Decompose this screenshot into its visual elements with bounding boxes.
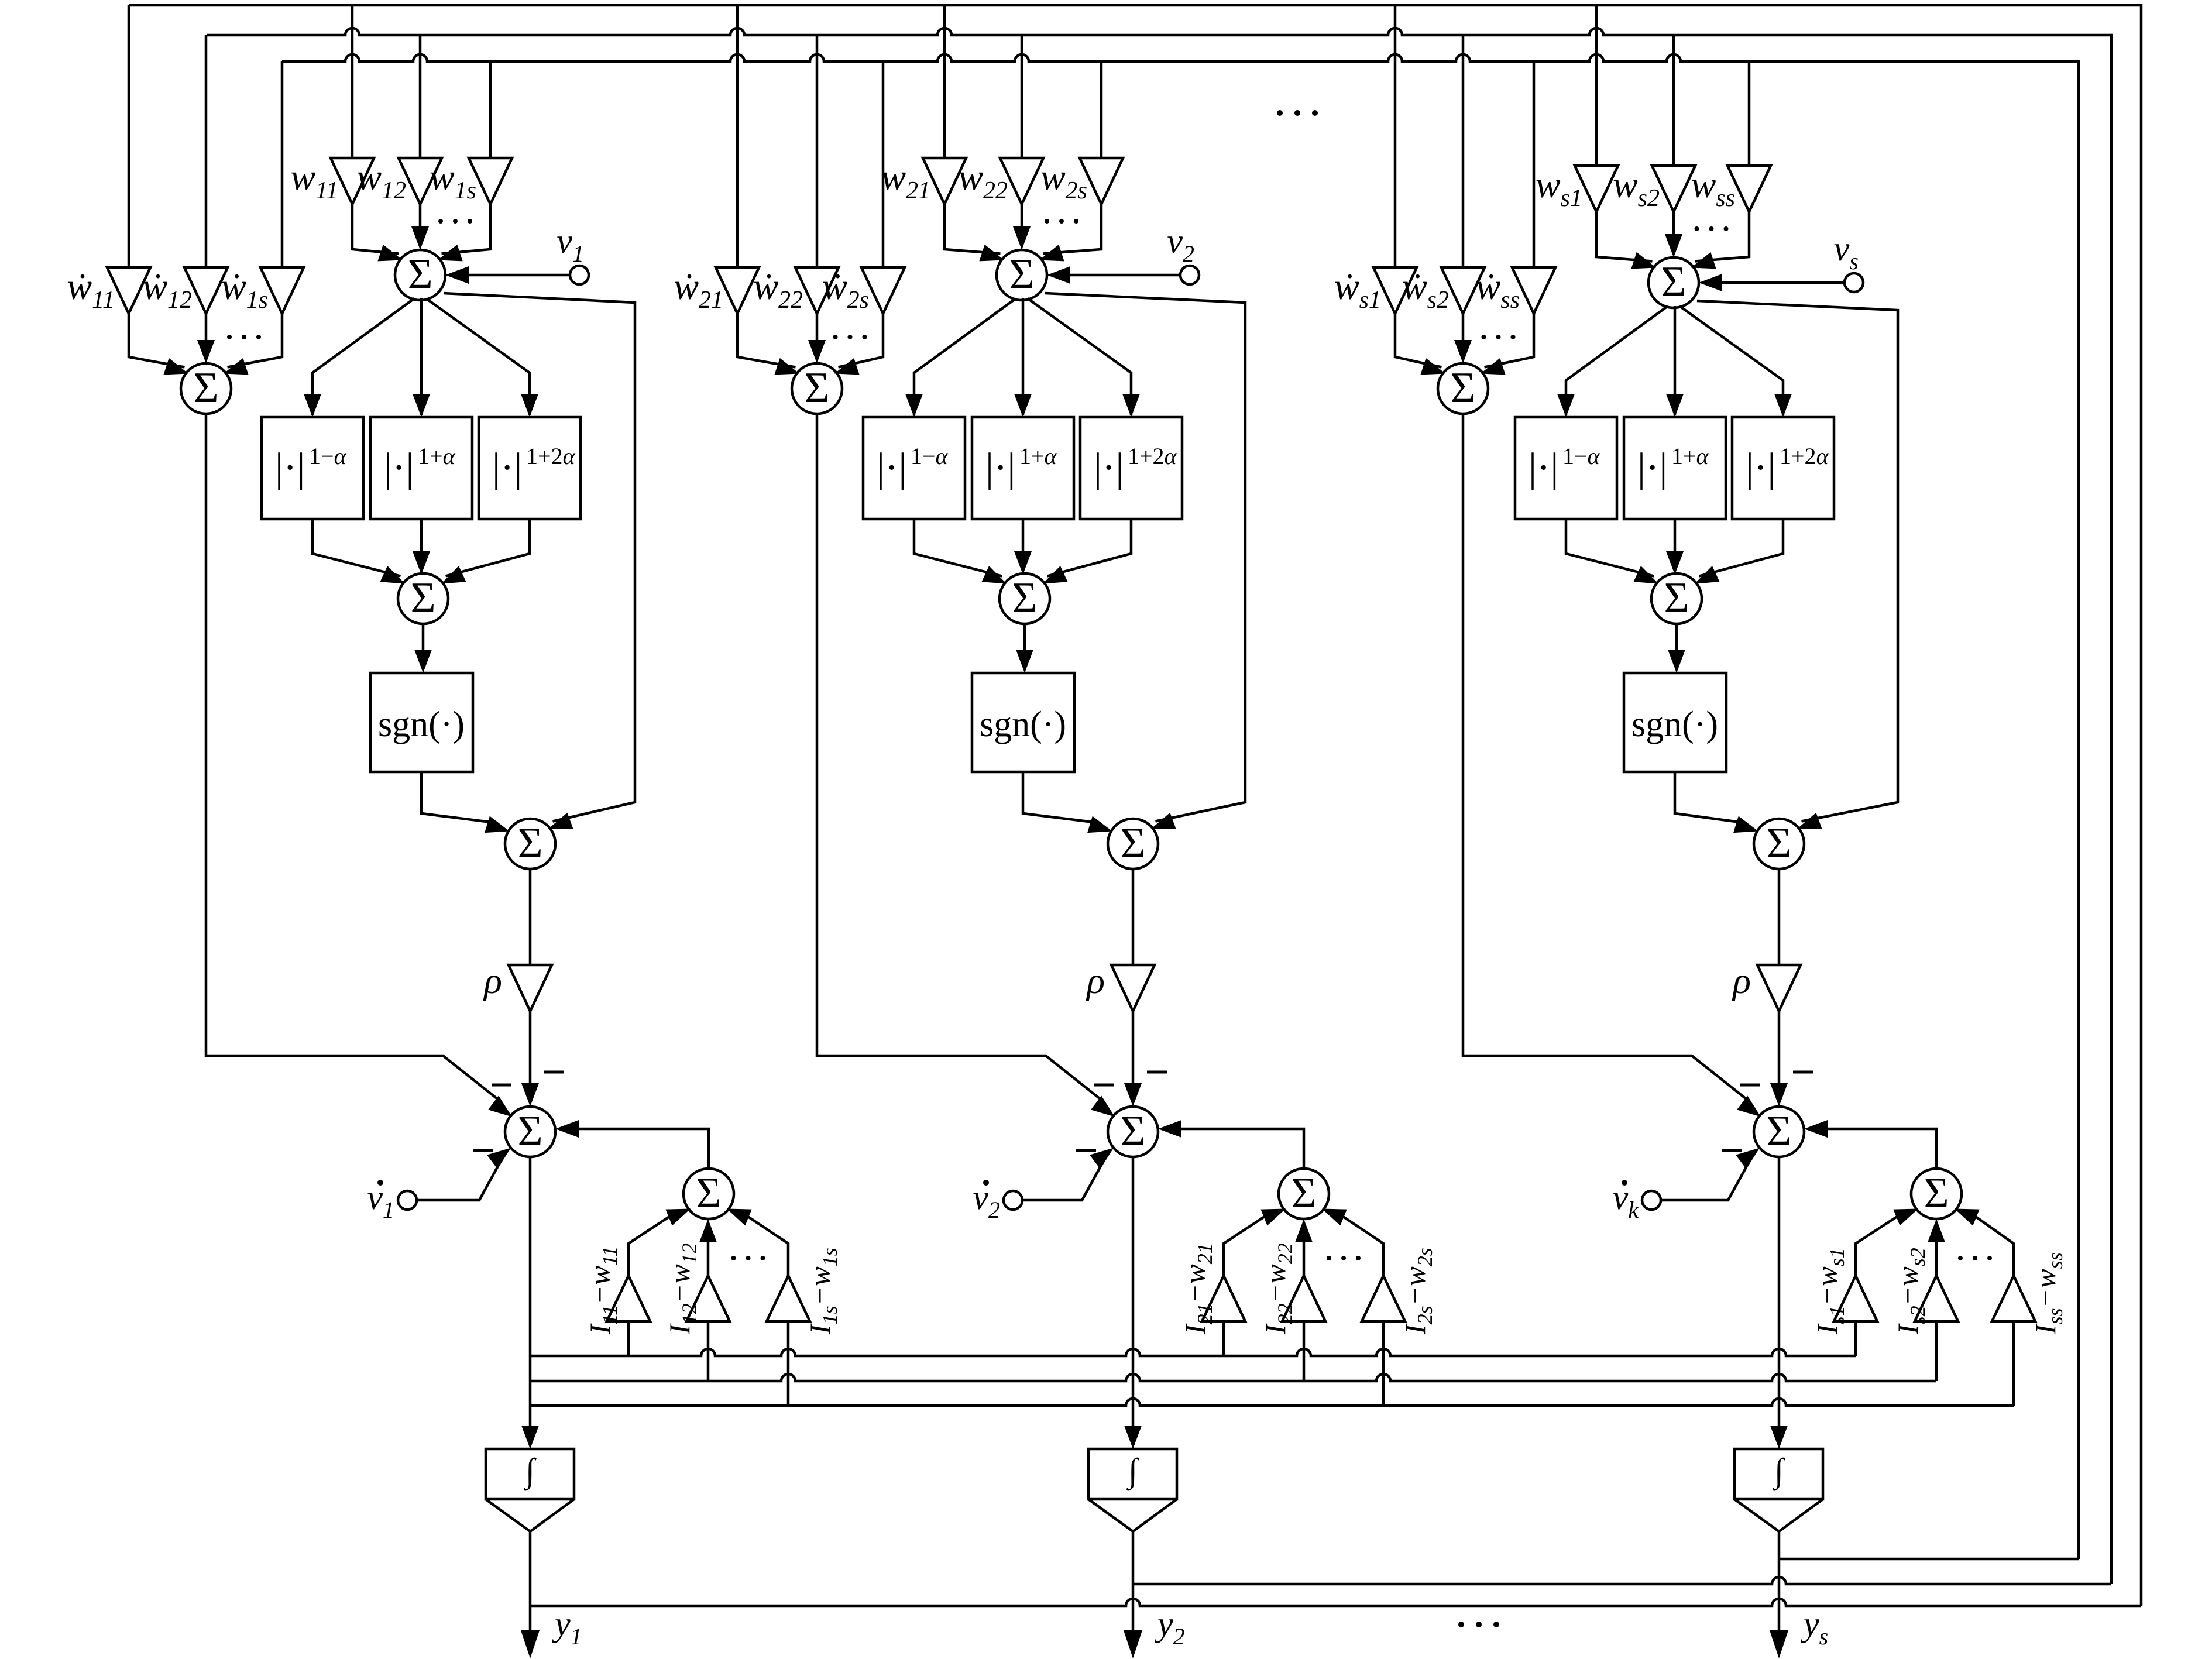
abs-power box |.|^1+2a column 1 [479, 417, 581, 519]
gain triangle Iss-wss [1992, 1276, 2035, 1321]
wire mid sum to sgn box [1023, 624, 1026, 653]
wire main sum to abs box 1 [914, 298, 1016, 415]
summing junction (lower) column 3 [1754, 1107, 1804, 1157]
wire feed from top bus 2 to gain ws2 [1672, 35, 1675, 166]
wire wdot1s to wdot sum [228, 314, 283, 367]
svg-text:ρ: ρ [1732, 960, 1751, 1001]
sgn box column 2 [972, 673, 1074, 772]
svg-text:∫: ∫ [1126, 1451, 1139, 1491]
summing junction (post-sgn) column 1 [505, 819, 555, 869]
arrowhead into wdot sum (right) [224, 358, 249, 375]
minus sign (rho input) [1793, 1071, 1813, 1074]
wire I-gain 21 to I-sum [1224, 1216, 1266, 1276]
wire bypass from main sum to post-sgn sum [1045, 293, 1245, 822]
arrowhead into I-sum (left) [665, 1209, 691, 1226]
wire I-gain 12 to I-sum [707, 1238, 710, 1276]
arrowhead into lower sum from wdot sum [1737, 1095, 1761, 1117]
arrowhead into I-sum (middle) [1928, 1219, 1945, 1242]
svg-text:Σ: Σ [1766, 819, 1791, 867]
terminal circle v1 [570, 266, 589, 284]
label I22-w22 [1259, 1243, 1297, 1335]
wire abs box 1 to mid sum [312, 519, 401, 576]
svg-text:Σ: Σ [517, 1107, 542, 1155]
abs-power box |.|^1+a column 1 [370, 417, 472, 519]
gain triangle w12 [399, 158, 442, 204]
arrowhead output ys [1770, 1630, 1788, 1658]
wire wss to sum [1695, 212, 1750, 262]
wire I-sum to lower sum [573, 1129, 709, 1169]
svg-text:Σ: Σ [1012, 574, 1037, 622]
wire mid sum to sgn box [422, 624, 425, 653]
svg-text:Σ: Σ [193, 364, 218, 412]
arrowhead into lower sum from rho [1124, 1083, 1142, 1107]
arrowhead into sgn box [414, 650, 432, 673]
wire bottom bus 2 (y2 to I-gains) [530, 1374, 1936, 1381]
wire sgn box to post-sgn sum [421, 772, 498, 823]
arrowhead into main sum from w2s [1039, 245, 1064, 262]
arrowhead into main sum from w1s [438, 245, 463, 262]
svg-text:|·|: |·| [1529, 445, 1558, 490]
wire feed from top bus 3 to gain wdotss [1533, 61, 1536, 267]
wire lower sum to integrator [529, 1157, 532, 1429]
svg-text:|·|: |·| [1746, 445, 1775, 490]
wire ys feedback bottom line [1779, 1558, 2079, 1561]
wire vdotk to lower sum [1661, 1162, 1750, 1201]
arrowhead into main sum from ws1 [1631, 252, 1656, 269]
summing junction (after abs boxes) column 2 [999, 573, 1050, 624]
wire w11 to sum [352, 204, 399, 254]
arrowhead into lower sum from rho [521, 1083, 539, 1107]
gain triangle I2s-w2s [1362, 1276, 1405, 1321]
svg-text:1+α: 1+α [1671, 443, 1709, 469]
wire integrator to output y [1132, 1531, 1135, 1633]
arrowhead output y1 [521, 1630, 540, 1658]
svg-text:1+α: 1+α [418, 443, 456, 469]
arrowhead into lower sum from vdot [1736, 1148, 1760, 1169]
wire I-gain 1s to I-sum [747, 1216, 788, 1276]
wire integrator to output y [529, 1531, 532, 1633]
arrowhead into I-sum (right) [1322, 1209, 1347, 1226]
svg-text:1+2α: 1+2α [1780, 443, 1829, 469]
wire wdot2s to wdot sum [839, 314, 884, 367]
summing junction (after abs boxes) column 1 [398, 573, 448, 624]
sgn box column 1 [370, 673, 473, 772]
wire I-gain s1 to I-sum [1856, 1216, 1898, 1276]
arrowhead output y2 [1124, 1630, 1142, 1658]
wire I-sum to lower sum [1176, 1129, 1304, 1169]
arrowhead into I-sum (left) [1893, 1209, 1918, 1226]
svg-text:Σ: Σ [517, 819, 542, 867]
wire feed from top bus 2 to gain wdot22 [816, 35, 819, 267]
abs-power box |.|^1+2a column 3 [1732, 417, 1834, 519]
arrowhead into wdot sum (left) [774, 358, 799, 375]
wire w1s to sum [442, 204, 491, 254]
gain triangle I22-w22 [1282, 1276, 1325, 1321]
label Is1-ws1 [1811, 1248, 1849, 1335]
summing junction (lower) column 1 [505, 1107, 555, 1157]
svg-text:1−α: 1−α [1562, 443, 1600, 469]
wire stem I12 to bottom bus 2 [707, 1321, 710, 1381]
wire main sum to abs box 3 [1028, 298, 1131, 415]
wire main sum to abs box 2 [1022, 298, 1025, 415]
gain triangle I1s-w1s [767, 1276, 810, 1321]
wire feed from top bus 2 to gain w22 [1021, 35, 1023, 158]
wire wdots2 to wdot sum [1462, 314, 1465, 344]
arrowhead into mid sum from box 3 [441, 566, 466, 584]
minus sign (vdot input) [1722, 1149, 1742, 1152]
wire feed from top bus 1 to gain ws1 [1595, 5, 1598, 166]
dots between I gains [1958, 1256, 1963, 1260]
terminal circle vdotk [1642, 1191, 1661, 1210]
wire stem I22 to bottom bus 2 [1303, 1321, 1306, 1381]
svg-text:1+2α: 1+2α [526, 443, 576, 469]
gain triangle w11 [331, 158, 374, 204]
arrowhead into abs box 1 [905, 394, 923, 417]
svg-text:Σ: Σ [1766, 1107, 1791, 1155]
svg-text:|·|: |·| [1637, 445, 1667, 490]
arrowhead into main sum from ws2 [1665, 234, 1682, 257]
arrowhead into post-sgn sum from bypass [1151, 813, 1176, 829]
minus sign (vdot input) [1076, 1149, 1096, 1152]
gain triangle rho column 1 [509, 965, 552, 1011]
arrowhead into wdot sum (right) [834, 358, 860, 375]
svg-text:Σ: Σ [1661, 258, 1686, 306]
wire abs box 1 to mid sum [1566, 519, 1654, 576]
wire feed from top bus 2 to gain wdots2 [1462, 35, 1465, 267]
arrowhead into main sum from w21 [979, 245, 1004, 262]
wire right vertical from y2 output to top bus 2 [2110, 34, 2113, 1584]
minus sign (rho input) [544, 1071, 564, 1074]
wire stem Iss to bottom bus 3 [2012, 1321, 2015, 1406]
arrowhead into main sum from w12 [411, 226, 429, 250]
gain triangle wdot12 [184, 267, 228, 314]
arrowhead into main sum from w11 [377, 245, 403, 262]
arrowhead into mid sum from box 3 [1043, 566, 1068, 584]
svg-text:Σ: Σ [1450, 364, 1475, 412]
gain triangle wdot1s [260, 267, 304, 314]
svg-text:sgn(·): sgn(·) [378, 705, 465, 744]
arrowhead into I-sum (middle) [699, 1219, 717, 1242]
gain triangle wdot2s [861, 267, 905, 314]
terminal circle vdot1 [398, 1191, 417, 1210]
gain triangle I11-w11 [607, 1276, 650, 1321]
wire lower sum to integrator [1778, 1157, 1781, 1429]
svg-text:|·|: |·| [985, 445, 1015, 490]
wire y2 feedback bottom line [1133, 1577, 2111, 1584]
svg-text:ρ: ρ [1086, 960, 1105, 1001]
gain triangle ws1 [1575, 166, 1618, 212]
wire w2s to sum [1043, 204, 1102, 254]
summing junction (I-gains) column 1 [683, 1169, 734, 1219]
wire feed from top bus 3 to gain wss [1748, 61, 1751, 166]
arrowhead into wdot sum (middle) [808, 340, 826, 363]
svg-text:Σ: Σ [1120, 1107, 1145, 1155]
arrowhead into post-sgn sum from sgn [1087, 816, 1112, 833]
gain triangle rho column 2 [1111, 965, 1155, 1011]
wire feed from top bus 3 to gain w1s [489, 61, 492, 158]
arrowhead into integrator [1124, 1426, 1142, 1449]
arrowhead into main sum from v1 [445, 266, 469, 284]
wire v1 to main sum [464, 274, 570, 277]
svg-text:|·|: |·| [877, 445, 906, 490]
arrowhead into wdot sum (middle) [197, 340, 215, 363]
arrowhead into wdot sum (left) [163, 358, 188, 375]
wire stem Is1 to bottom bus 1 [1854, 1321, 1857, 1356]
arrowhead into post-sgn sum from bypass [1797, 813, 1822, 829]
terminal circle vs [1845, 273, 1863, 292]
wire w22 to sum [1021, 204, 1023, 230]
svg-text:Σ: Σ [1291, 1169, 1316, 1217]
arrowhead into sgn box [1668, 650, 1685, 673]
arrowhead into abs box 1 [1557, 394, 1575, 417]
gain triangle wdotss [1512, 267, 1555, 314]
svg-text:Σ: Σ [1664, 574, 1689, 622]
wire main sum to abs box 3 [1679, 306, 1783, 415]
wire abs box 2 to mid sum [1022, 519, 1025, 555]
dots between I gains [731, 1256, 736, 1260]
wire bottom bus 3 (ys to I-gains) [530, 1399, 2014, 1406]
minus sign (wdot-sum input) [1094, 1084, 1114, 1087]
gain triangle wdots2 [1441, 267, 1485, 314]
arrowhead into main sum from w22 [1013, 226, 1031, 250]
gain triangle I21-w21 [1202, 1276, 1245, 1321]
arrowhead into abs box 3 [521, 394, 538, 417]
arrowhead into main sum from v2 [1047, 266, 1070, 284]
wire y1 feedback bottom line [530, 1599, 2141, 1606]
wire top bus 3 (ys feedback) [282, 54, 2079, 61]
arrowhead into wdot sum (middle) [1454, 340, 1472, 363]
summing junction (main) column 1 [395, 250, 445, 300]
wire top bus 2 (y2 feedback) [207, 28, 2111, 35]
wire sgn box to post-sgn sum [1023, 772, 1101, 823]
wire stem I2s to bottom bus 3 [1382, 1321, 1385, 1406]
summing junction (wdot) column 2 [792, 363, 842, 414]
wire abs box 3 to mid sum [1047, 519, 1132, 576]
abs-power box |.|^1-a column 1 [262, 417, 363, 519]
wire feed from top bus 2 to gain w12 [419, 35, 422, 158]
wire post-sgn sum to rho gain [529, 869, 532, 965]
arrowhead into mid sum from box 2 [413, 551, 430, 575]
abs-power box |.|^1-a column 3 [1515, 417, 1617, 519]
wire I-gain ss to I-sum [1974, 1216, 2014, 1276]
svg-text:|·|: |·| [384, 445, 414, 490]
summing junction (main) column 2 [997, 250, 1047, 300]
wire main sum to abs box 2 [1674, 306, 1677, 415]
wire I-gain 2s to I-sum [1342, 1216, 1383, 1276]
arrowhead into post-sgn sum from bypass [548, 813, 573, 829]
minus sign (rho input) [1147, 1071, 1167, 1074]
abs-power box |.|^1+2a column 2 [1080, 417, 1182, 519]
wire abs box 3 to mid sum [446, 519, 530, 576]
gain triangle wdots1 [1373, 267, 1417, 314]
svg-text:Σ: Σ [407, 250, 432, 298]
dots between I gains [1327, 1256, 1331, 1260]
sgn box column 3 [1624, 673, 1726, 772]
arrowhead into post-sgn sum from sgn [1733, 816, 1758, 833]
summing junction (lower) column 2 [1108, 1107, 1158, 1157]
wire wdotss to wdot sum [1485, 314, 1534, 367]
wire vs to main sum [1718, 281, 1845, 284]
arrowhead into abs box 2 [413, 394, 430, 417]
wire bypass from main sum to post-sgn sum [1697, 301, 1898, 822]
dots between w gains [438, 219, 443, 224]
svg-text:|·|: |·| [275, 445, 305, 490]
wire I-gain s2 to I-sum [1935, 1238, 1938, 1276]
wire mid sum to sgn box [1675, 624, 1678, 653]
gain triangle w1s [469, 158, 512, 204]
arrowhead into abs box 1 [304, 394, 321, 417]
minus sign (wdot-sum input) [492, 1084, 511, 1087]
wire integrator to output y [1778, 1531, 1781, 1633]
gain triangle w21 [923, 158, 966, 204]
gain triangle I12-w12 [686, 1276, 730, 1321]
svg-text:∫: ∫ [1772, 1451, 1785, 1491]
wire abs box 3 to mid sum [1699, 519, 1784, 576]
arrowhead into I-sum (right) [727, 1209, 752, 1226]
arrowhead into mid sum from box 1 [982, 566, 1007, 584]
gain triangle Is1-ws1 [1834, 1276, 1877, 1321]
arrowhead into abs box 2 [1666, 394, 1684, 417]
arrowhead into mid sum from box 3 [1695, 566, 1720, 584]
wire feed from top bus 1 to gain wdot21 [736, 5, 739, 267]
wire w21 to sum [944, 204, 1001, 254]
arrowhead into lower sum from I-sum [1158, 1120, 1181, 1138]
arrowhead into lower sum from rho [1770, 1083, 1788, 1107]
summing junction (wdot) column 3 [1438, 363, 1488, 414]
wire post-sgn sum to rho gain [1778, 869, 1781, 965]
arrowhead into post-sgn sum from sgn [485, 816, 510, 833]
gain triangle wdot21 [716, 267, 759, 314]
label I12-w12 [663, 1243, 701, 1335]
wire wdot12 to wdot sum [205, 314, 208, 344]
wire I-gain 22 to I-sum [1303, 1238, 1306, 1276]
svg-text:Σ: Σ [1009, 250, 1034, 298]
arrowhead into lower sum from I-sum [1804, 1120, 1828, 1138]
summing junction (post-sgn) column 2 [1108, 819, 1158, 869]
svg-text:1−α: 1−α [911, 443, 949, 469]
wire feed from top bus 2 to gain wdot12 [205, 35, 208, 267]
svg-text:∫: ∫ [523, 1451, 537, 1491]
wire main sum to abs box 2 [420, 298, 423, 415]
dots between wdot gains [1482, 335, 1486, 339]
dots between column 2 and column 3 (bottom) [1458, 1622, 1464, 1627]
wire w12 to sum [419, 204, 422, 230]
wire ws2 to sum [1672, 212, 1675, 238]
wire right vertical from ys output to top bus 3 [2077, 60, 2080, 1559]
abs-power box |.|^1-a column 2 [863, 417, 965, 519]
wire wdot sum to lower sum [206, 414, 497, 1099]
wire bottom bus 1 (y1 to I-gains) [530, 1349, 1856, 1356]
svg-text:sgn(·): sgn(·) [980, 705, 1066, 744]
wire stem I1s to bottom bus 3 [787, 1321, 790, 1406]
wire top bus 1 (y1 feedback to all first-column gains) [129, 4, 2141, 7]
arrowhead into integrator [521, 1426, 539, 1449]
summing junction (I-gains) column 3 [1911, 1169, 1962, 1219]
summing junction (wdot) column 1 [181, 363, 231, 414]
gain triangle wdot22 [795, 267, 839, 314]
wire vdot1 to lower sum [417, 1162, 501, 1201]
wire wdot sum to lower sum [1463, 414, 1746, 1099]
arrowhead into mid sum from box 2 [1666, 551, 1684, 575]
wire right vertical from y1 output to top bus 1 [2140, 4, 2143, 1606]
gain triangle wdot11 [107, 267, 150, 314]
label I21-w21 [1179, 1243, 1217, 1335]
arrowhead into lower sum from I-sum [555, 1120, 579, 1138]
arrowhead into I-sum (left) [1260, 1209, 1286, 1226]
gain triangle rho column 3 [1757, 965, 1801, 1011]
svg-text:1+2α: 1+2α [1128, 443, 1177, 469]
arrowhead into wdot sum (left) [1420, 358, 1445, 375]
wire abs box 1 to mid sum [914, 519, 1002, 576]
wire wdot22 to wdot sum [816, 314, 819, 344]
arrowhead into abs box 3 [1774, 394, 1792, 417]
wire bypass from main sum to post-sgn sum [444, 293, 635, 822]
arrowhead into sgn box [1016, 650, 1033, 673]
summing junction (main) column 3 [1648, 257, 1699, 308]
arrowhead into lower sum from wdot sum [488, 1095, 512, 1117]
integrator column 2 [1088, 1449, 1177, 1499]
gain triangle wss [1727, 166, 1771, 212]
wire lower sum to integrator [1132, 1157, 1135, 1429]
wire rho gain to lower sum [529, 1011, 532, 1087]
terminal circle vdot2 [1004, 1191, 1022, 1210]
wire feed from top bus 3 to gain wdot1s [281, 61, 284, 267]
wire rho gain to lower sum [1778, 1011, 1781, 1087]
wire post-sgn sum to rho gain [1132, 869, 1135, 965]
label Iss-wss [2029, 1252, 2067, 1335]
terminal circle v2 [1180, 266, 1199, 284]
wire feed from top bus 1 to gain w11 [351, 5, 354, 158]
svg-text:Σ: Σ [410, 574, 435, 622]
summing junction (post-sgn) column 3 [1754, 819, 1804, 869]
abs-power box |.|^1+a column 3 [1624, 417, 1726, 519]
wire main sum to abs box 1 [312, 298, 414, 415]
wire sgn box to post-sgn sum [1675, 772, 1747, 823]
integrator column 1 [486, 1449, 574, 1499]
svg-text:|·|: |·| [492, 445, 522, 490]
svg-text:Σ: Σ [696, 1169, 721, 1217]
abs-power box |.|^1+a column 2 [972, 417, 1074, 519]
wire wdot11 to wdot sum [129, 314, 185, 367]
wire abs box 2 to mid sum [1674, 519, 1677, 555]
dots between w gains [1695, 226, 1699, 231]
arrowhead into wdot sum (right) [1481, 358, 1506, 375]
arrowhead into I-sum (middle) [1295, 1219, 1313, 1242]
wire I-sum to lower sum [1822, 1129, 1936, 1169]
wire feed from top bus 1 to gain wdots1 [1394, 5, 1397, 267]
arrowhead into lower sum from wdot sum [1091, 1095, 1115, 1117]
summing junction (I-gains) column 2 [1279, 1169, 1329, 1219]
arrowhead into abs box 2 [1014, 394, 1032, 417]
wire wdots1 to wdot sum [1395, 314, 1442, 367]
label I1s-w1s [803, 1248, 841, 1335]
minus sign (wdot-sum input) [1740, 1084, 1760, 1087]
gain triangle w22 [1000, 158, 1043, 204]
arrowhead into integrator [1770, 1426, 1788, 1449]
svg-text:1+α: 1+α [1019, 443, 1057, 469]
arrowhead into mid sum from box 1 [380, 566, 406, 584]
wire feed from top bus 3 to gain wdot2s [882, 61, 885, 267]
wire ws1 to sum [1596, 212, 1653, 262]
label I2s-w2s [1399, 1248, 1437, 1335]
wire I-gain 11 to I-sum [628, 1216, 671, 1276]
wire wdot21 to wdot sum [737, 314, 796, 367]
dots between wdot gains [833, 335, 838, 339]
svg-text:Σ: Σ [1120, 819, 1145, 867]
svg-text:1−α: 1−α [309, 443, 347, 469]
dots between w gains [1045, 219, 1049, 224]
arrowhead into lower sum from vdot [1090, 1148, 1114, 1169]
